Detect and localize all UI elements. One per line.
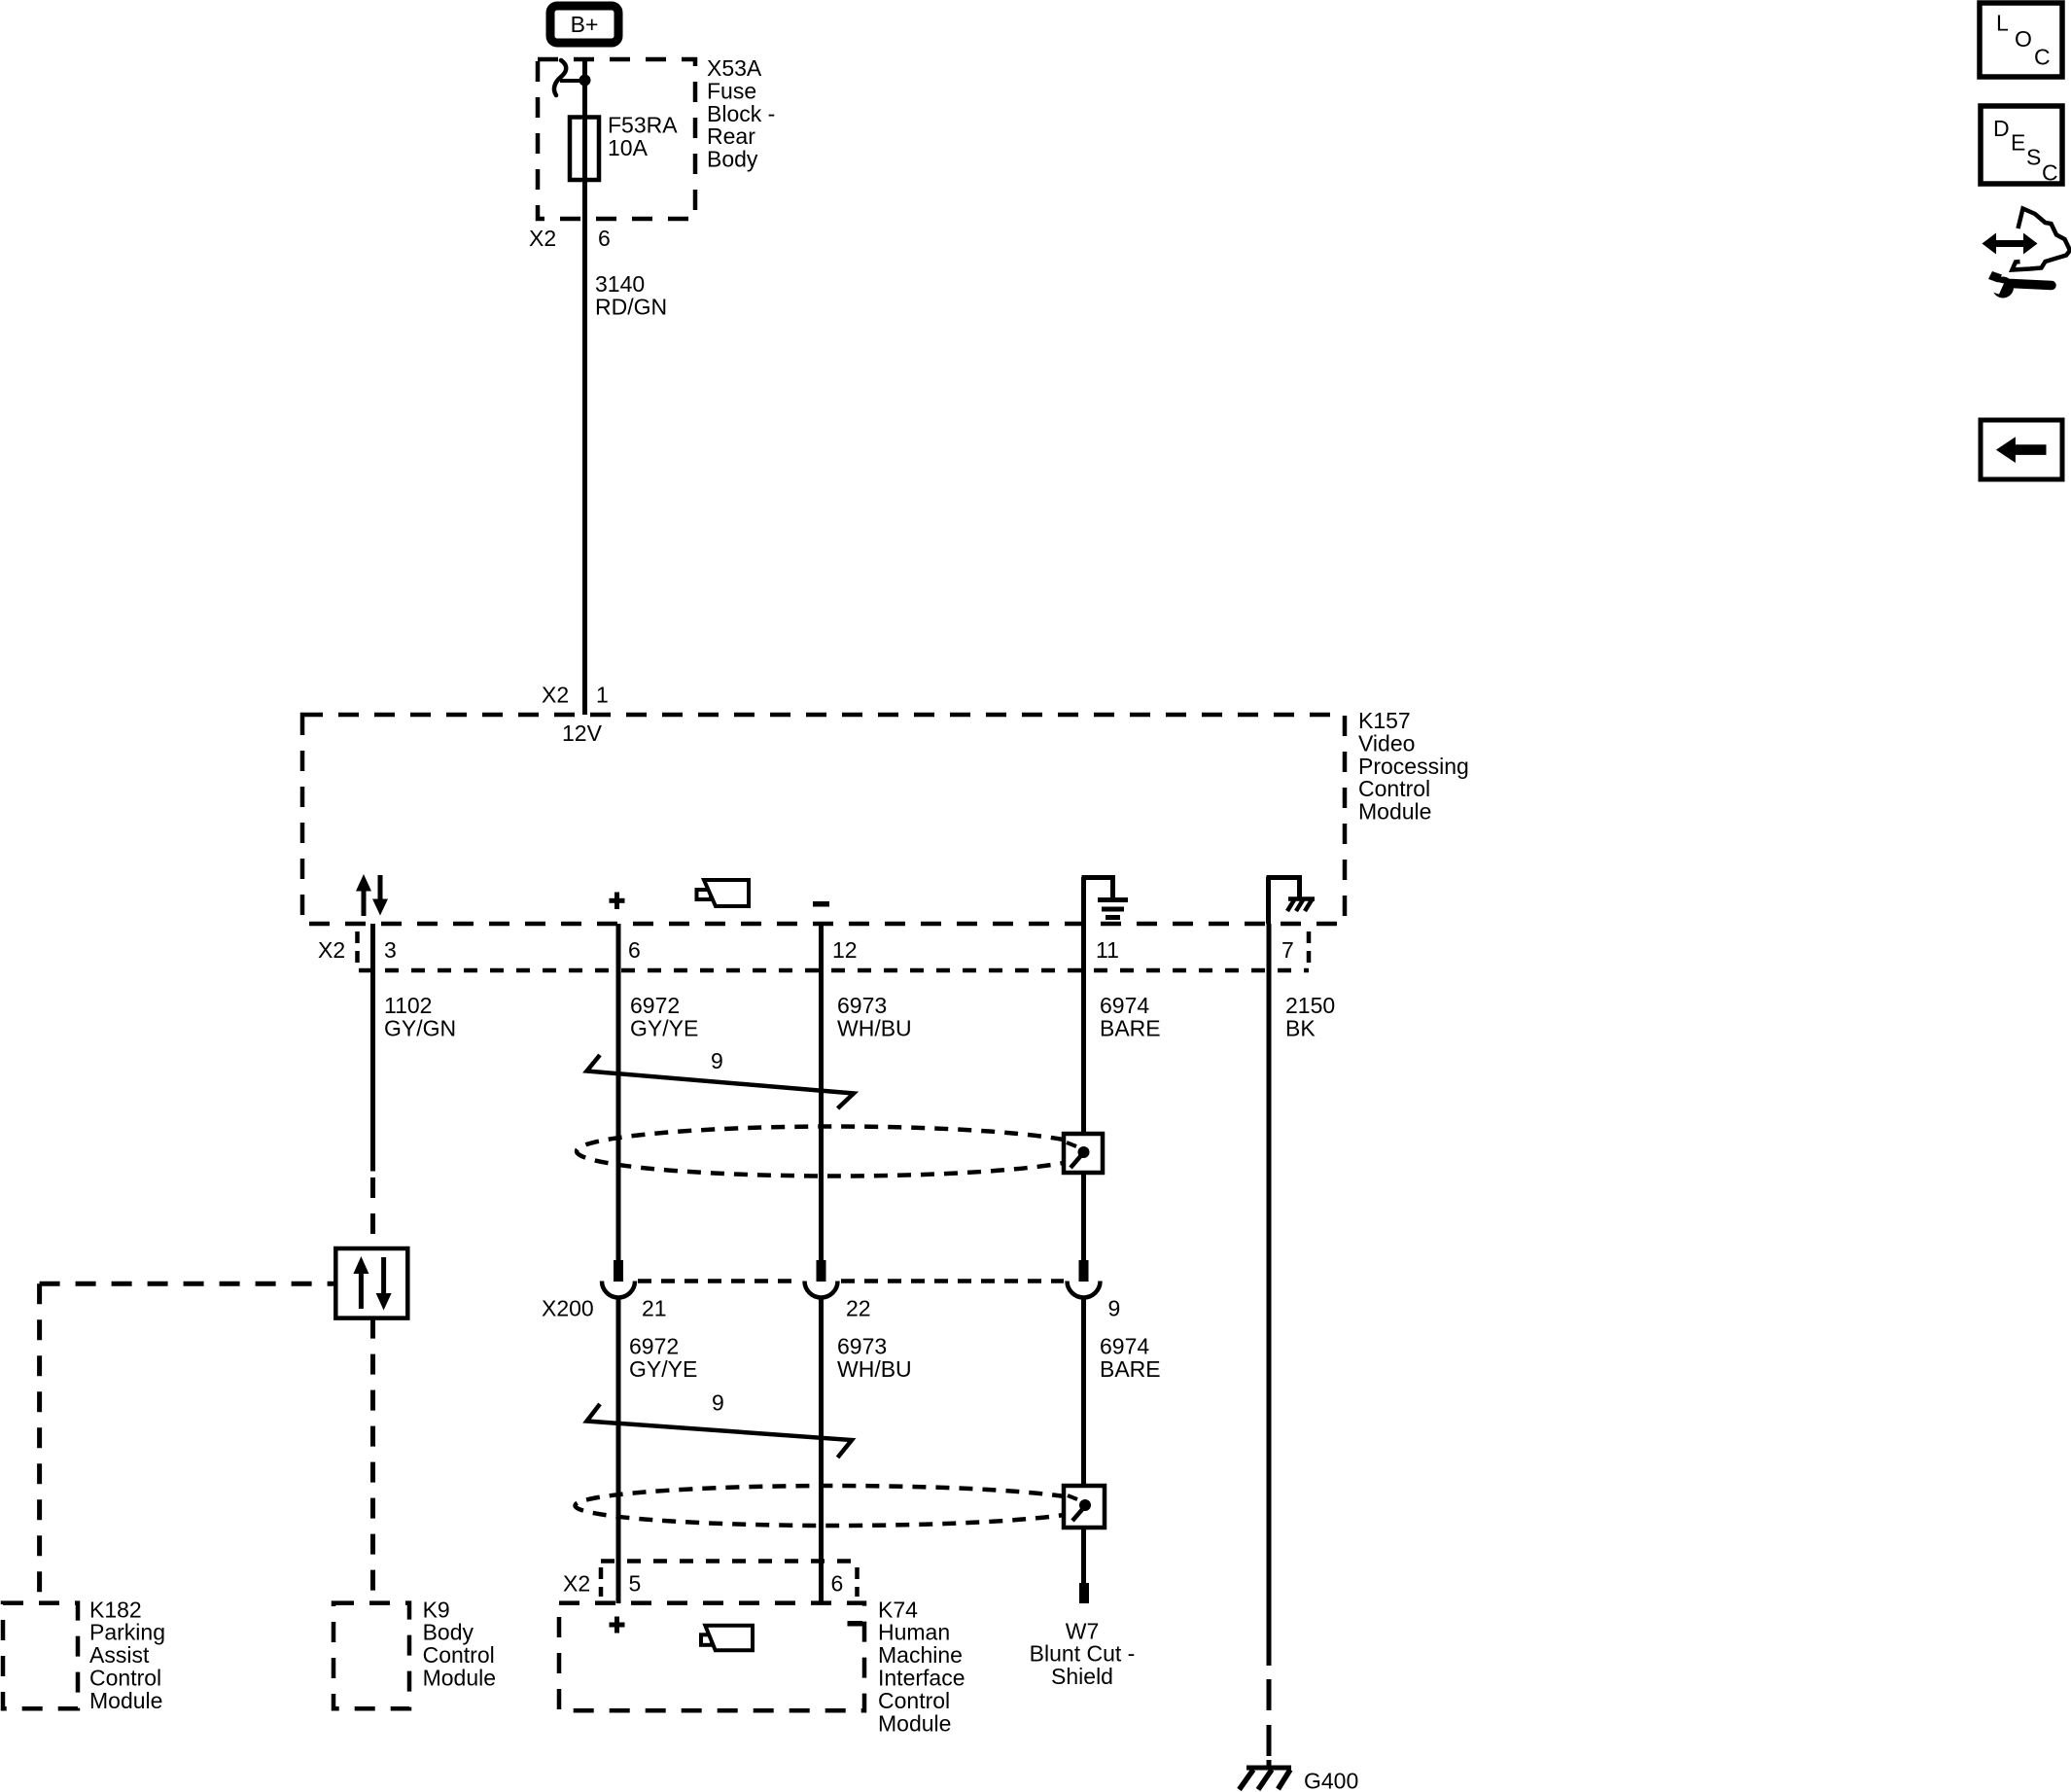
- X2 connector band above K74: [601, 1559, 858, 1564]
- K74 pin labels X2 5 6: [563, 1571, 843, 1597]
- X200 terminal pin 21: [602, 1260, 635, 1298]
- svg-text:Processing: Processing: [1358, 754, 1469, 779]
- svg-text:12: 12: [832, 937, 858, 963]
- X200 terminal pin 22: [805, 1260, 838, 1298]
- svg-text:BARE: BARE: [1100, 1015, 1161, 1040]
- X53A fuse block label: [707, 55, 775, 172]
- svg-text:Body: Body: [423, 1620, 474, 1645]
- twisted pair symbol lower: [587, 1404, 853, 1458]
- svg-text:7: 7: [1281, 937, 1294, 963]
- wire 6974 label lower: [1100, 1334, 1161, 1383]
- svg-text:X2: X2: [529, 226, 556, 251]
- wire 6973 lower: [819, 1297, 824, 1603]
- svg-text:Module: Module: [878, 1710, 951, 1736]
- svg-text:D: D: [1993, 116, 2010, 141]
- pin X2 1 labels: [542, 683, 609, 708]
- svg-text:X2: X2: [563, 1571, 590, 1597]
- W7 label: [1030, 1618, 1136, 1689]
- wire 3140 label: [595, 271, 667, 319]
- svg-text:Machine: Machine: [878, 1642, 963, 1668]
- fuse block X53A dashed box: [538, 59, 695, 219]
- wire 2150 solid part: [1267, 924, 1272, 1666]
- svg-text:2150: 2150: [1285, 993, 1335, 1018]
- wire 2150 dashed part: [1267, 1679, 1272, 1756]
- svg-text:GY/GN: GY/GN: [384, 1015, 456, 1040]
- svg-text:1: 1: [596, 683, 609, 708]
- LOC icon box: [1980, 3, 2062, 77]
- B+ power symbol: [550, 6, 618, 43]
- svg-text:F53RA: F53RA: [608, 113, 678, 138]
- X2 bracket right: [1307, 931, 1312, 968]
- wrench icon: [1983, 271, 2052, 299]
- svg-text:Rear: Rear: [707, 123, 755, 149]
- svg-text:Control: Control: [423, 1642, 495, 1668]
- svg-text:Human: Human: [878, 1620, 950, 1645]
- pin X2 6 labels: [529, 226, 611, 251]
- svg-text:6: 6: [598, 226, 611, 251]
- connector hook symbol: [554, 60, 566, 95]
- svg-text:Video: Video: [1358, 730, 1415, 755]
- svg-text:K182: K182: [89, 1597, 142, 1622]
- svg-text:O: O: [2015, 26, 2032, 52]
- svg-text:WH/BU: WH/BU: [837, 1015, 912, 1040]
- wire 6973 label upper: [837, 993, 912, 1040]
- minus symbol K74: [848, 1621, 863, 1627]
- svg-text:1102: 1102: [384, 993, 432, 1018]
- DESC icon box: [1981, 106, 2062, 186]
- svg-text:K74: K74: [878, 1597, 918, 1622]
- X2 bracket left: [355, 931, 360, 970]
- svg-text:6: 6: [628, 937, 641, 963]
- svg-text:6974: 6974: [1100, 993, 1149, 1018]
- svg-text:GY/YE: GY/YE: [630, 1015, 698, 1040]
- serial data link box: [335, 1248, 407, 1318]
- svg-text:6: 6: [831, 1571, 844, 1597]
- svg-text:X2: X2: [542, 683, 569, 708]
- svg-text:B+: B+: [571, 12, 599, 37]
- wire 6973 upper: [819, 924, 824, 1261]
- svg-text:Parking: Parking: [89, 1620, 165, 1645]
- svg-text:K157: K157: [1358, 708, 1411, 733]
- junction dot: [579, 75, 591, 87]
- svg-text:BARE: BARE: [1100, 1356, 1161, 1382]
- camera icon K74: [701, 1626, 753, 1651]
- svg-text:22: 22: [846, 1296, 871, 1321]
- svg-text:21: 21: [642, 1296, 667, 1321]
- K9 label: [423, 1597, 496, 1690]
- X200 terminal pin 9: [1068, 1260, 1101, 1298]
- twisted pair symbol upper: [587, 1055, 855, 1108]
- svg-text:BK: BK: [1285, 1015, 1316, 1040]
- shield connection box lower: [1064, 1486, 1105, 1528]
- svg-text:K9: K9: [423, 1597, 450, 1622]
- wire 6974 lower: [1081, 1297, 1086, 1583]
- svg-text:6972: 6972: [629, 1334, 679, 1359]
- ground symbol at pin 11: [1082, 875, 1129, 924]
- dashed wire serial box to K9: [370, 1318, 375, 1603]
- shield ellipse upper: [577, 1127, 1094, 1177]
- K157 module dashed box: [302, 715, 1345, 924]
- svg-text:L: L: [1996, 10, 2009, 35]
- svg-text:3: 3: [384, 937, 397, 963]
- svg-text:C: C: [2034, 45, 2051, 70]
- svg-text:X2: X2: [318, 937, 345, 963]
- camera icon K157: [697, 880, 750, 906]
- plus symbol K74: [610, 1617, 625, 1634]
- svg-text:E: E: [2011, 129, 2025, 155]
- fuse F53RA: [570, 118, 599, 181]
- K74 module dashed box: [559, 1603, 864, 1711]
- wire 6974 label upper: [1100, 993, 1161, 1040]
- svg-text:WH/BU: WH/BU: [837, 1356, 912, 1382]
- wire 3140 RD/GN: [582, 219, 587, 715]
- svg-text:Fuse: Fuse: [707, 78, 756, 103]
- svg-text:Block -: Block -: [707, 101, 775, 126]
- X200 inline connector row: [638, 1279, 1064, 1283]
- K9 module dashed box: [333, 1603, 409, 1709]
- svg-text:X200: X200: [542, 1296, 594, 1321]
- svg-text:W7: W7: [1066, 1618, 1100, 1643]
- svg-text:GY/YE: GY/YE: [629, 1356, 697, 1382]
- svg-text:11: 11: [1096, 937, 1119, 963]
- X200 pin numbers: [642, 1296, 1120, 1321]
- svg-text:S: S: [2026, 145, 2041, 170]
- K182 module dashed box: [3, 1603, 78, 1709]
- shield ellipse lower: [576, 1486, 1094, 1526]
- svg-text:X53A: X53A: [707, 55, 762, 81]
- W7 blunt cut terminal: [1079, 1583, 1089, 1603]
- X2 bracket left K74: [599, 1567, 604, 1597]
- dashed wire to K182 horizontal: [40, 1282, 336, 1286]
- back arrow icon box: [1981, 420, 2062, 479]
- svg-text:12V: 12V: [562, 720, 603, 746]
- svg-text:6973: 6973: [837, 993, 887, 1018]
- wire 1102 dashed part: [370, 1177, 375, 1248]
- wire from fuse to block bottom: [582, 180, 587, 219]
- wire 1102 label: [384, 993, 456, 1040]
- wire 6974 upper: [1081, 924, 1086, 1261]
- K74 label: [878, 1597, 965, 1736]
- svg-text:10A: 10A: [608, 135, 649, 160]
- svg-text:Module: Module: [423, 1666, 496, 1691]
- svg-text:Shield: Shield: [1051, 1664, 1113, 1689]
- dashed wire to K182 vertical: [37, 1283, 42, 1603]
- serial data arrows at pin 3: [356, 874, 388, 916]
- K182 label: [89, 1597, 165, 1713]
- svg-text:6973: 6973: [837, 1334, 887, 1359]
- svg-text:Control: Control: [1358, 776, 1430, 801]
- svg-text:Interface: Interface: [878, 1666, 965, 1691]
- shield connection box upper: [1064, 1134, 1103, 1173]
- svg-text:Blunt Cut -: Blunt Cut -: [1030, 1641, 1136, 1667]
- svg-text:5: 5: [629, 1571, 642, 1597]
- svg-text:9: 9: [1108, 1296, 1121, 1321]
- wire 6972 upper: [616, 924, 621, 1261]
- K157 label: [1358, 708, 1469, 825]
- svg-text:C: C: [2042, 160, 2058, 186]
- chassis ground symbol at pin 7: [1267, 875, 1316, 924]
- pin labels X2 3 6 12 11 7: [318, 937, 1294, 963]
- wire 6972 label upper: [630, 993, 698, 1040]
- svg-text:Body: Body: [707, 147, 758, 172]
- fuse value label: [608, 113, 678, 160]
- diagnostic pointer icon: [1983, 209, 2071, 270]
- svg-text:Module: Module: [89, 1688, 162, 1713]
- svg-text:6974: 6974: [1100, 1334, 1149, 1359]
- minus symbol at pin 12: [813, 901, 829, 907]
- svg-text:Control: Control: [878, 1688, 950, 1713]
- svg-text:6972: 6972: [630, 993, 680, 1018]
- wire inside fuse block: [582, 59, 587, 118]
- svg-text:9: 9: [712, 1390, 724, 1416]
- svg-text:Module: Module: [1358, 799, 1431, 825]
- wire 1102 solid part: [370, 924, 375, 1172]
- wire 6973 label lower: [837, 1334, 912, 1383]
- X2 bracket right K74: [855, 1567, 860, 1597]
- svg-text:Assist: Assist: [89, 1642, 150, 1668]
- plus symbol at pin 6: [610, 893, 625, 910]
- wire 6972 label lower: [629, 1334, 697, 1383]
- svg-text:9: 9: [711, 1048, 723, 1073]
- svg-text:RD/GN: RD/GN: [595, 294, 667, 319]
- G400 ground symbol: [1240, 1768, 1292, 1790]
- wire 2150 label: [1285, 993, 1335, 1040]
- svg-text:G400: G400: [1304, 1769, 1358, 1792]
- svg-text:Control: Control: [89, 1666, 161, 1691]
- svg-text:3140: 3140: [595, 271, 645, 297]
- wire 6972 lower: [616, 1297, 621, 1603]
- stub to hook: [560, 79, 585, 83]
- X2 connector band under K157: [359, 968, 1309, 973]
